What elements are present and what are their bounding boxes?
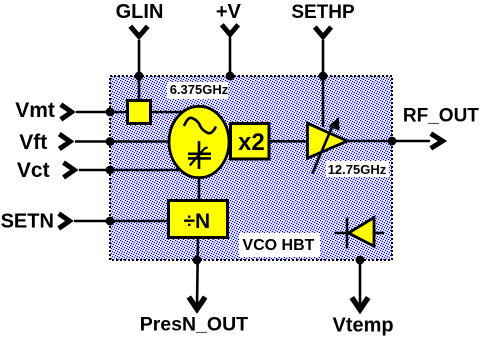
label Vft (19, 131, 47, 154)
label +V (216, 1, 242, 23)
wire Vtemp (359, 260, 362, 306)
attenuator pad R1 yellow square (128, 101, 151, 124)
junction dot RF_OUT at border (388, 137, 397, 146)
label 6.375GHz (167, 82, 229, 99)
wire Vct horizontal (79, 169, 185, 172)
terminal arrow PresN_OUT (189, 297, 205, 309)
wire multiplier to amplifier (270, 140, 310, 143)
label Vct (17, 159, 50, 182)
wire Vft horizontal (75, 140, 175, 143)
wire SETHP vertical (322, 40, 325, 127)
amplifier A1 variable gain (308, 117, 348, 174)
svg-text:Vct: Vct (17, 159, 50, 182)
junction dot Vft at border (106, 137, 115, 146)
junction dot GLIN at border (135, 72, 144, 81)
svg-text:Vft: Vft (19, 131, 47, 154)
svg-text:SETN: SETN (1, 210, 54, 232)
wire SETN horizontal (74, 220, 167, 223)
terminal arrow RF_OUT (431, 134, 443, 149)
label Vtemp (333, 315, 394, 337)
junction dot SETN at border (106, 217, 115, 226)
label RF_OUT (403, 105, 479, 126)
junction dot +V at border (226, 72, 235, 81)
wire GLIN vertical (138, 40, 141, 99)
label Vmt (15, 99, 55, 122)
terminal arrow Vmt (61, 105, 72, 120)
terminal arrow +V (222, 25, 238, 35)
svg-text:GLIN: GLIN (116, 1, 164, 23)
wire oscillator to divider (198, 177, 201, 200)
junction dot SETHP at border (319, 72, 328, 81)
svg-text:RF_OUT: RF_OUT (403, 105, 479, 126)
label PresN_OUT (140, 313, 248, 335)
oscillator OSC1 body (169, 106, 229, 177)
junction dot Vmt at border (106, 108, 115, 117)
varactor symbol inside oscillator (188, 141, 211, 169)
junction dot PresN_OUT at border (193, 256, 202, 265)
terminal arrow Vtemp (352, 298, 368, 310)
label GLIN (116, 1, 164, 23)
label SETN (1, 210, 54, 232)
wire +V vertical (229, 38, 232, 77)
junction dot Vtemp at border (356, 256, 365, 265)
svg-text:÷N: ÷N (184, 210, 211, 233)
block U1 VCO HBT body (110, 76, 392, 260)
wire Vmt horizontal (76, 111, 183, 114)
wire divider to PresN_OUT (197, 238, 198, 306)
terminal arrow SETN (59, 214, 70, 229)
label 12.75GHz (326, 161, 389, 177)
svg-text:Vmt: Vmt (15, 99, 55, 122)
svg-text:x2: x2 (238, 129, 265, 156)
multiplier x2 box (231, 124, 270, 160)
junction dot Vct at border (106, 166, 115, 175)
svg-text:6.375GHz: 6.375GHz (170, 82, 229, 97)
wire amplifier to RF_OUT (346, 140, 430, 143)
divider N1 box (169, 201, 228, 238)
oscillator sine symbol (184, 118, 216, 133)
svg-text:SETHP: SETHP (291, 2, 355, 23)
svg-text:12.75GHz: 12.75GHz (328, 162, 387, 177)
terminal arrow Vct (64, 163, 75, 178)
label SETHP (291, 2, 355, 23)
diode D1 temperature sense (335, 218, 384, 249)
svg-text:VCO HBT: VCO HBT (242, 237, 314, 254)
svg-text:+V: +V (216, 1, 242, 23)
terminal arrow GLIN (130, 26, 147, 36)
svg-text:PresN_OUT: PresN_OUT (140, 313, 248, 335)
svg-text:Vtemp: Vtemp (333, 315, 394, 337)
label VCO HBT (239, 233, 320, 257)
terminal arrow Vft (59, 134, 70, 149)
terminal arrow SETHP (315, 27, 331, 37)
